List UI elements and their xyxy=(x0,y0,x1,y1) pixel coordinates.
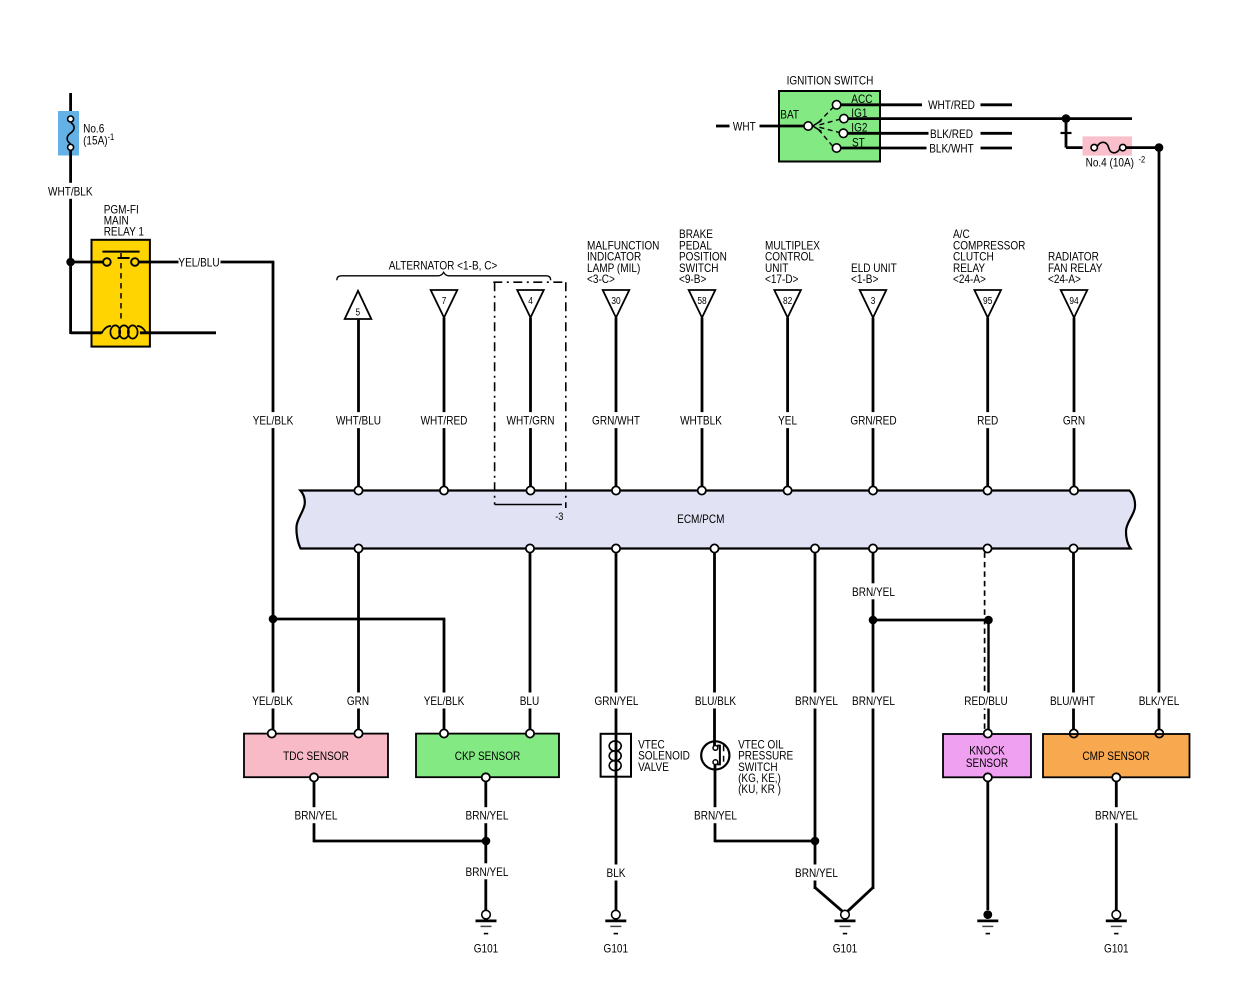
svg-text:WHT/RED: WHT/RED xyxy=(928,98,975,112)
svg-text:GRN/RED: GRN/RED xyxy=(850,414,896,428)
svg-text:ECM/PCM: ECM/PCM xyxy=(677,512,724,526)
svg-text:No.4 (10A): No.4 (10A) xyxy=(1086,156,1134,170)
svg-text:3: 3 xyxy=(871,296,876,307)
svg-text:CMP SENSOR: CMP SENSOR xyxy=(1082,749,1149,763)
svg-text:BLK: BLK xyxy=(607,866,626,880)
svg-text:BRN/YEL: BRN/YEL xyxy=(694,809,737,823)
svg-text:G101: G101 xyxy=(1104,942,1129,956)
svg-text:GRN/WHT: GRN/WHT xyxy=(592,414,640,428)
svg-text:WHTBLK: WHTBLK xyxy=(680,414,722,428)
svg-text:-3: -3 xyxy=(555,511,563,523)
svg-text:<24-A>: <24-A> xyxy=(953,272,986,286)
svg-text:<9-B>: <9-B> xyxy=(679,272,706,286)
svg-text:(15A): (15A) xyxy=(83,134,108,148)
svg-text:BRN/YEL: BRN/YEL xyxy=(795,694,838,708)
svg-text:YEL: YEL xyxy=(778,414,797,428)
svg-text:GRN: GRN xyxy=(347,694,369,708)
svg-text:(KU, KR ): (KU, KR ) xyxy=(738,782,781,796)
svg-text:30: 30 xyxy=(611,296,621,307)
svg-text:WHT/BLU: WHT/BLU xyxy=(336,414,381,428)
svg-text:WHT: WHT xyxy=(733,119,756,133)
svg-text:GRN/YEL: GRN/YEL xyxy=(595,694,639,708)
svg-text:VALVE: VALVE xyxy=(638,760,669,774)
svg-text:<1-B>: <1-B> xyxy=(851,272,878,286)
svg-text:RED: RED xyxy=(977,414,998,428)
svg-text:7: 7 xyxy=(442,296,447,307)
svg-text:BRN/YEL: BRN/YEL xyxy=(852,694,895,708)
svg-text:ALTERNATOR <1-B, C>: ALTERNATOR <1-B, C> xyxy=(389,258,498,272)
svg-text:BAT: BAT xyxy=(780,107,799,121)
svg-text:94: 94 xyxy=(1069,296,1079,307)
svg-text:BRN/YEL: BRN/YEL xyxy=(466,809,509,823)
svg-text:4: 4 xyxy=(528,296,533,307)
svg-text:-2: -2 xyxy=(1139,154,1146,164)
svg-text:RELAY 1: RELAY 1 xyxy=(104,225,145,239)
svg-text:BLK/RED: BLK/RED xyxy=(930,127,973,141)
svg-text:5: 5 xyxy=(356,308,361,319)
svg-text:<3-C>: <3-C> xyxy=(587,272,615,286)
svg-text:TDC SENSOR: TDC SENSOR xyxy=(283,749,349,763)
svg-text:BRN/YEL: BRN/YEL xyxy=(295,809,338,823)
svg-text:YEL/BLK: YEL/BLK xyxy=(252,694,293,708)
svg-text:BRN/YEL: BRN/YEL xyxy=(1095,809,1138,823)
svg-text:BLU/BLK: BLU/BLK xyxy=(695,694,736,708)
svg-text:G101: G101 xyxy=(604,942,629,956)
svg-text:BLU: BLU xyxy=(520,694,540,708)
svg-text:<24-A>: <24-A> xyxy=(1048,272,1081,286)
svg-text:BRN/YEL: BRN/YEL xyxy=(466,865,509,879)
svg-text:CKP SENSOR: CKP SENSOR xyxy=(455,749,521,763)
svg-text:BRN/YEL: BRN/YEL xyxy=(795,866,838,880)
svg-text:WHT/RED: WHT/RED xyxy=(421,414,468,428)
svg-text:RED/BLU: RED/BLU xyxy=(964,694,1007,708)
svg-text:BLK/WHT: BLK/WHT xyxy=(929,142,974,156)
svg-text:G101: G101 xyxy=(833,942,858,956)
svg-text:WHT/BLK: WHT/BLK xyxy=(48,184,93,198)
svg-text:58: 58 xyxy=(697,296,707,307)
svg-text:SENSOR: SENSOR xyxy=(966,756,1009,770)
svg-text:YEL/BLK: YEL/BLK xyxy=(253,414,294,428)
svg-text:BLK/YEL: BLK/YEL xyxy=(1139,694,1180,708)
svg-text:<17-D>: <17-D> xyxy=(765,272,798,286)
svg-text:BLU/WHT: BLU/WHT xyxy=(1050,694,1096,708)
svg-text:YEL/BLK: YEL/BLK xyxy=(424,694,465,708)
svg-text:GRN: GRN xyxy=(1063,414,1085,428)
svg-text:95: 95 xyxy=(983,296,993,307)
svg-text:YEL/BLU: YEL/BLU xyxy=(178,255,219,269)
svg-text:G101: G101 xyxy=(474,942,499,956)
svg-text:IGNITION SWITCH: IGNITION SWITCH xyxy=(787,73,874,87)
svg-text:82: 82 xyxy=(783,296,793,307)
svg-text:WHT/GRN: WHT/GRN xyxy=(507,414,555,428)
svg-text:BRN/YEL: BRN/YEL xyxy=(852,585,895,599)
svg-text:-1: -1 xyxy=(108,132,115,142)
